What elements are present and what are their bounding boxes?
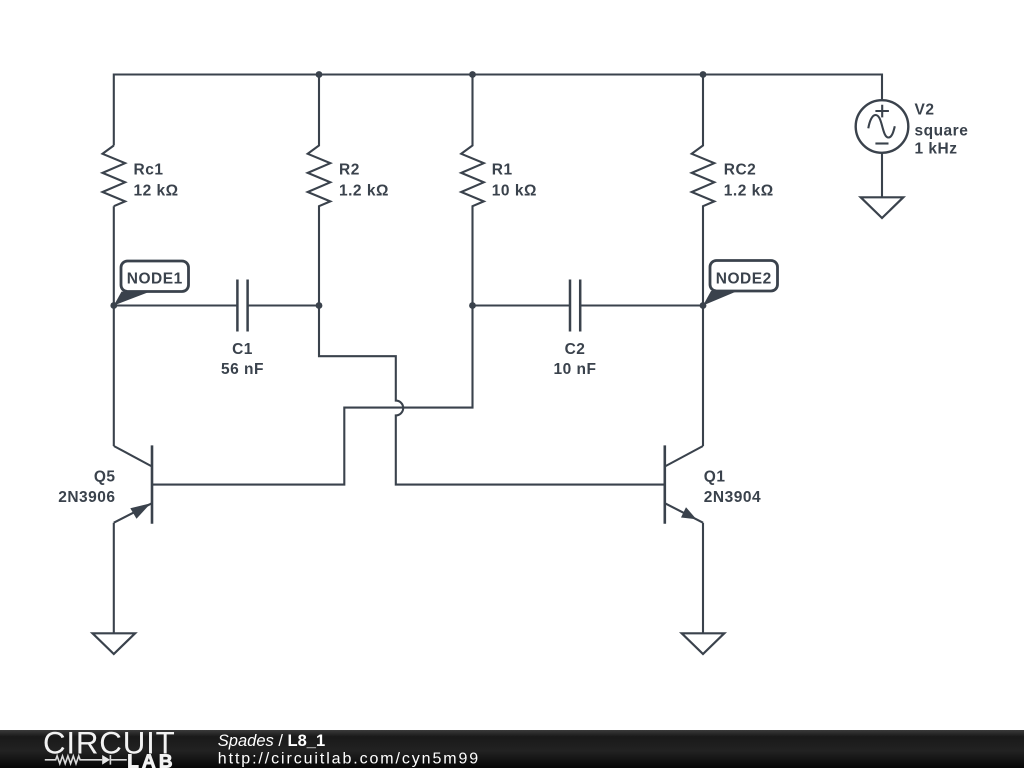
V2 minus sign bbox=[875, 142, 888, 144]
NODE2 rounded box bbox=[710, 261, 778, 292]
resistor R1 zigzag body with lead wires bbox=[461, 75, 484, 306]
NODE2 pointer wedge bbox=[703, 291, 738, 306]
wire R1 node to C2 left plate bbox=[473, 304, 571, 306]
junction dot rail/R1 bbox=[469, 71, 476, 78]
svg-text:NODE1: NODE1 bbox=[127, 271, 183, 288]
junction dot node NODE2 bbox=[700, 302, 707, 309]
resistor R1 bbox=[461, 75, 537, 306]
Q1 emitter arrow (points outward) bbox=[681, 507, 696, 519]
resistor Rc1 zigzag body bbox=[103, 146, 126, 207]
svg-text:2N3904: 2N3904 bbox=[704, 489, 761, 506]
svg-text:2N3906: 2N3906 bbox=[58, 489, 115, 506]
footer bar bbox=[0, 730, 1024, 768]
wire top supply rail from Rc1 top across to V2 bbox=[114, 75, 882, 146]
svg-text:Rc1: Rc1 bbox=[134, 162, 164, 179]
svg-text:C2: C2 bbox=[565, 341, 586, 358]
svg-text:10 kΩ: 10 kΩ bbox=[492, 183, 537, 200]
ground (Q1) bbox=[682, 633, 725, 654]
svg-text:Q5: Q5 bbox=[94, 469, 116, 486]
capacitor C1 bbox=[221, 280, 264, 379]
svg-text:1.2 kΩ: 1.2 kΩ bbox=[339, 183, 389, 200]
resistor RC2 bbox=[692, 75, 774, 306]
svg-text:NODE2: NODE2 bbox=[716, 271, 772, 288]
wire NODE1 to C1 left plate bbox=[114, 304, 238, 306]
Q1 base bar bbox=[663, 445, 666, 523]
junction dot rail/RC2 bbox=[700, 71, 707, 78]
Q5 collector diagonal bbox=[114, 446, 152, 467]
V2 plus sign bbox=[875, 105, 889, 118]
resistor R2 bbox=[308, 75, 389, 306]
V2 sine waveform glyph bbox=[868, 115, 895, 138]
Q1 emitter diagonal bbox=[665, 503, 703, 523]
resistor R2 zigzag body with lead wires bbox=[308, 75, 331, 306]
wire Q1 collector up to NODE2 bbox=[702, 306, 704, 447]
wire Rc1 bottom through NODE1 to Q5 collector bbox=[113, 206, 115, 446]
wire V2 negative terminal to ground bbox=[881, 153, 883, 198]
resistor Rc1 bbox=[103, 146, 179, 207]
junction dot node NODE1 bbox=[110, 302, 117, 309]
Q5 base bar bbox=[151, 445, 154, 523]
wire C1 right plate to R2 node bbox=[248, 304, 319, 306]
junction dot R1/C2 bbox=[469, 302, 476, 309]
svg-text:http://circuitlab.com/cyn5m99: http://circuitlab.com/cyn5m99 bbox=[218, 751, 480, 768]
wire Q1 emitter to ground bbox=[702, 523, 704, 634]
capacitor C2 bbox=[554, 280, 597, 379]
transistor Q1 (NPN 2N3904) bbox=[665, 445, 761, 523]
svg-text:10 nF: 10 nF bbox=[554, 361, 597, 378]
voltage source V2 bbox=[856, 100, 969, 157]
Q5 emitter diagonal bbox=[114, 503, 152, 523]
svg-text:56 nF: 56 nF bbox=[221, 361, 264, 378]
svg-text:square: square bbox=[915, 122, 969, 139]
junction dot R2/C1 bbox=[316, 302, 323, 309]
wire R2 branch down and across to Q1 base with hop over crossing bbox=[319, 306, 665, 485]
svg-text:LAB: LAB bbox=[127, 751, 175, 768]
ground (Q5) bbox=[93, 633, 136, 654]
svg-text:Q1: Q1 bbox=[704, 469, 726, 486]
V2 source circle bbox=[856, 100, 909, 153]
NODE1 rounded box bbox=[121, 261, 189, 292]
wire R1 branch down and across to Q5 base bbox=[152, 306, 473, 485]
C1 plates bbox=[237, 280, 247, 332]
node NODE1 flag bbox=[114, 261, 189, 306]
C2 plates bbox=[570, 280, 580, 332]
wire Q5 emitter to ground bbox=[113, 523, 115, 634]
Q1 collector diagonal bbox=[665, 446, 703, 467]
CircuitLab logo bbox=[43, 726, 176, 768]
svg-text:R2: R2 bbox=[339, 162, 360, 179]
ground (V2) bbox=[861, 197, 904, 218]
NODE1 pointer wedge bbox=[114, 292, 150, 306]
Q5 emitter arrow (points into base bar) bbox=[130, 503, 151, 519]
junction dot rail/R2 bbox=[316, 71, 323, 78]
svg-text:V2: V2 bbox=[915, 101, 935, 118]
svg-text:RC2: RC2 bbox=[724, 162, 757, 179]
logo resistor squiggle bbox=[45, 756, 102, 764]
svg-text:R1: R1 bbox=[492, 162, 513, 179]
resistor RC2 zigzag body with lead wires bbox=[692, 75, 715, 306]
logo diode triangle bbox=[102, 755, 110, 765]
svg-text:Spades / L8_1: Spades / L8_1 bbox=[218, 732, 325, 750]
svg-text:1 kHz: 1 kHz bbox=[915, 140, 958, 157]
wire C2 right plate to NODE2 bbox=[580, 304, 703, 306]
transistor Q5 (PNP 2N3906, mirrored) bbox=[58, 445, 152, 523]
svg-text:12 kΩ: 12 kΩ bbox=[134, 183, 179, 200]
node NODE2 flag bbox=[703, 261, 778, 306]
logo diode bar and lead bbox=[110, 755, 126, 765]
svg-text:C1: C1 bbox=[232, 341, 253, 358]
svg-text:1.2 kΩ: 1.2 kΩ bbox=[724, 183, 774, 200]
